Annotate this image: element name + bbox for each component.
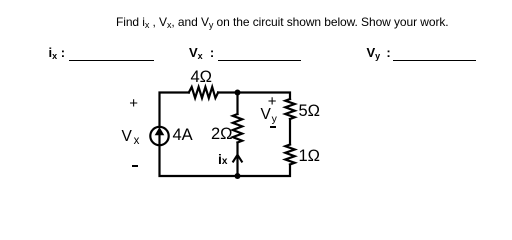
label: ix current name bbox=[218, 153, 227, 168]
label: Vx source voltage bbox=[122, 130, 140, 145]
label: 4 ohm resistor value bbox=[191, 70, 213, 84]
resistor R2 2ohm (vertical zigzag, middle) bbox=[233, 114, 242, 143]
wire: bottom-left segment bbox=[160, 145, 238, 176]
label: 1 ohm resistor value bbox=[299, 149, 321, 163]
label: 5 ohm resistor value bbox=[299, 104, 321, 118]
current source I1 circle bbox=[150, 127, 168, 145]
wire: middle branch top bbox=[236, 93, 238, 115]
wire: top-right segment bbox=[218, 93, 290, 100]
answer label ix bbox=[49, 47, 66, 60]
wire: top-left segment bbox=[160, 93, 189, 128]
label: plus sign of Vx bbox=[129, 97, 138, 110]
wire: right middle segment bbox=[289, 119, 291, 145]
label: 4A current source value bbox=[173, 128, 193, 142]
answer label Vy bbox=[367, 47, 391, 60]
wire: right bottom segment bbox=[238, 165, 291, 177]
ix current arrowhead on middle branch bbox=[233, 155, 242, 162]
resistor R3 5ohm (vertical zigzag, right top) bbox=[285, 99, 294, 119]
answer blank for ix bbox=[69, 60, 155, 61]
label: minus sign of Vx bbox=[132, 165, 138, 167]
label: 2 ohm resistor value bbox=[211, 127, 233, 141]
resistor R1 4ohm (horizontal zigzag, top wire) bbox=[189, 87, 218, 98]
current source I1 arrow (up) bbox=[158, 134, 160, 145]
label: minus sign of Vy bbox=[270, 126, 276, 128]
node junction dot top (middle/top wire) bbox=[235, 90, 241, 96]
label: plus sign of Vy bbox=[268, 95, 277, 108]
answer blank for Vx bbox=[218, 60, 302, 61]
resistor R4 1ohm (vertical zigzag, right bottom) bbox=[285, 145, 294, 165]
answer blank for Vy bbox=[393, 60, 476, 61]
wire: middle branch bottom with ix arrowhead bbox=[236, 143, 238, 177]
title text bbox=[116, 16, 449, 29]
label: Vy voltage name bbox=[261, 108, 277, 123]
answer label Vx bbox=[189, 47, 214, 60]
node junction dot bottom (middle/bottom wire) bbox=[235, 173, 241, 179]
